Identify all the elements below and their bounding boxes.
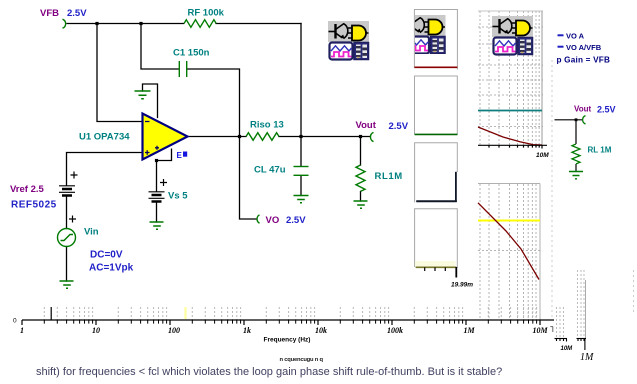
svg-text:U1 OPA734: U1 OPA734: [79, 132, 130, 143]
svg-text:VO: VO: [266, 215, 280, 226]
svg-text:1M: 1M: [463, 326, 475, 335]
svg-text:1M: 1M: [580, 352, 594, 363]
svg-text:AC=1Vpk: AC=1Vpk: [89, 263, 134, 274]
svg-text:shift) for frequencies < fcl w: shift) for frequencies < fcl which viola…: [36, 366, 502, 378]
svg-text:10k: 10k: [315, 326, 327, 335]
svg-text:Riso 13: Riso 13: [250, 120, 284, 131]
svg-text:RL1M: RL1M: [375, 171, 403, 182]
svg-text:2.5V: 2.5V: [67, 8, 87, 19]
svg-text:VO A/VFB: VO A/VFB: [566, 43, 602, 52]
svg-text:100: 100: [168, 326, 180, 335]
svg-text:Vout: Vout: [356, 120, 377, 131]
svg-text:Vs 5: Vs 5: [168, 191, 188, 202]
svg-text:0: 0: [13, 318, 17, 325]
svg-text:19.99m: 19.99m: [451, 282, 473, 289]
svg-text:Frequency (Hz): Frequency (Hz): [264, 337, 311, 344]
svg-text:10M: 10M: [532, 326, 548, 335]
svg-text:E: E: [177, 151, 183, 160]
svg-text:1k: 1k: [243, 326, 251, 335]
svg-text:2.5V: 2.5V: [389, 121, 409, 132]
svg-text:Vref 2.5: Vref 2.5: [10, 184, 45, 195]
svg-text:n cquencugu n q: n cquencugu n q: [280, 357, 324, 363]
svg-text:10M: 10M: [536, 152, 549, 159]
svg-text:2.5V: 2.5V: [597, 105, 616, 115]
svg-text:VFB: VFB: [40, 8, 59, 19]
svg-text:REF5025: REF5025: [11, 200, 57, 211]
svg-text:Vout: Vout: [574, 105, 592, 114]
svg-text:RF 100k: RF 100k: [188, 8, 225, 19]
svg-text:p Gain = VFB: p Gain = VFB: [557, 56, 611, 65]
svg-text:DC=0V: DC=0V: [90, 250, 123, 261]
svg-text:RL 1M: RL 1M: [588, 146, 612, 155]
svg-text:10M: 10M: [561, 346, 574, 352]
svg-text:2.5V: 2.5V: [286, 215, 306, 226]
svg-text:1: 1: [20, 326, 24, 335]
svg-text:10: 10: [92, 326, 100, 335]
svg-text:100k: 100k: [387, 326, 403, 335]
svg-text:CL 47u: CL 47u: [254, 165, 286, 176]
svg-text:Vin: Vin: [84, 227, 99, 238]
svg-text:C1 150n: C1 150n: [173, 48, 210, 59]
svg-text:VO A: VO A: [566, 32, 585, 41]
